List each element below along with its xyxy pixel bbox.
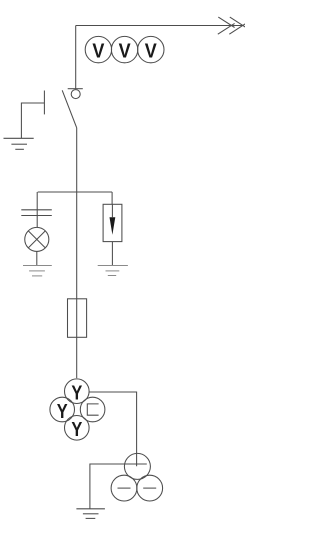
- fuse FU1: [68, 299, 87, 338]
- wire (main feeder drop to disconnector): [75, 26, 77, 89]
- voltmeter V2: [111, 36, 137, 62]
- wire (transformer neutral to ground): [90, 464, 147, 509]
- wire (fuse through / to transformer): [76, 299, 78, 378]
- svg-text:Y: Y: [71, 417, 82, 440]
- ground (transformer neutral): [76, 509, 105, 519]
- wire (passes between capacitor plates): [36, 210, 38, 216]
- voltage transformer TV1 primary winding (Y): [65, 379, 90, 404]
- wire (arrester to ground): [111, 242, 113, 266]
- auxiliary transformer T2 winding C: [137, 475, 163, 501]
- wire (incoming feeder bus, horizontal): [76, 25, 244, 27]
- svg-text:Y: Y: [71, 381, 82, 404]
- svg-text:V: V: [119, 39, 131, 62]
- lamp HL1 (indicator): [25, 227, 49, 251]
- wire (main line: disconnector to fuse): [76, 128, 78, 299]
- wire (drop to capacitor): [36, 192, 38, 210]
- wire (branch tee, horizontal): [38, 191, 112, 193]
- voltmeter V1: [85, 36, 111, 62]
- wire (lamp to ground): [36, 252, 38, 266]
- arrow (feeder continuation double chevron): [218, 17, 246, 34]
- voltage transformer TV1 tertiary winding (Y): [65, 416, 90, 441]
- voltage transformer TV1 secondary winding (Y): [50, 397, 75, 422]
- ground (lamp): [23, 266, 52, 276]
- svg-text:V: V: [92, 39, 104, 62]
- ground (surge arrester): [98, 266, 128, 276]
- disconnector QS1 (open): [62, 89, 83, 128]
- wire (TV1 to auxiliary transformer): [89, 392, 137, 466]
- voltmeter V3: [138, 36, 164, 62]
- voltage transformer TV1 open-delta winding: [80, 397, 105, 422]
- earthing switch contact bar: [43, 91, 45, 115]
- wire (earthing switch to ground): [21, 103, 44, 138]
- svg-text:V: V: [145, 39, 157, 62]
- auxiliary transformer T2 winding B: [111, 475, 137, 501]
- svg-text:Y: Y: [57, 399, 68, 422]
- ground (earthing switch): [4, 138, 34, 149]
- capacitor C1: [21, 210, 52, 216]
- surge arrester F1: [103, 204, 122, 241]
- auxiliary transformer T2 winding A: [124, 453, 150, 479]
- wire (capacitor to lamp): [36, 216, 38, 228]
- wire (drop to surge arrester): [111, 192, 113, 204]
